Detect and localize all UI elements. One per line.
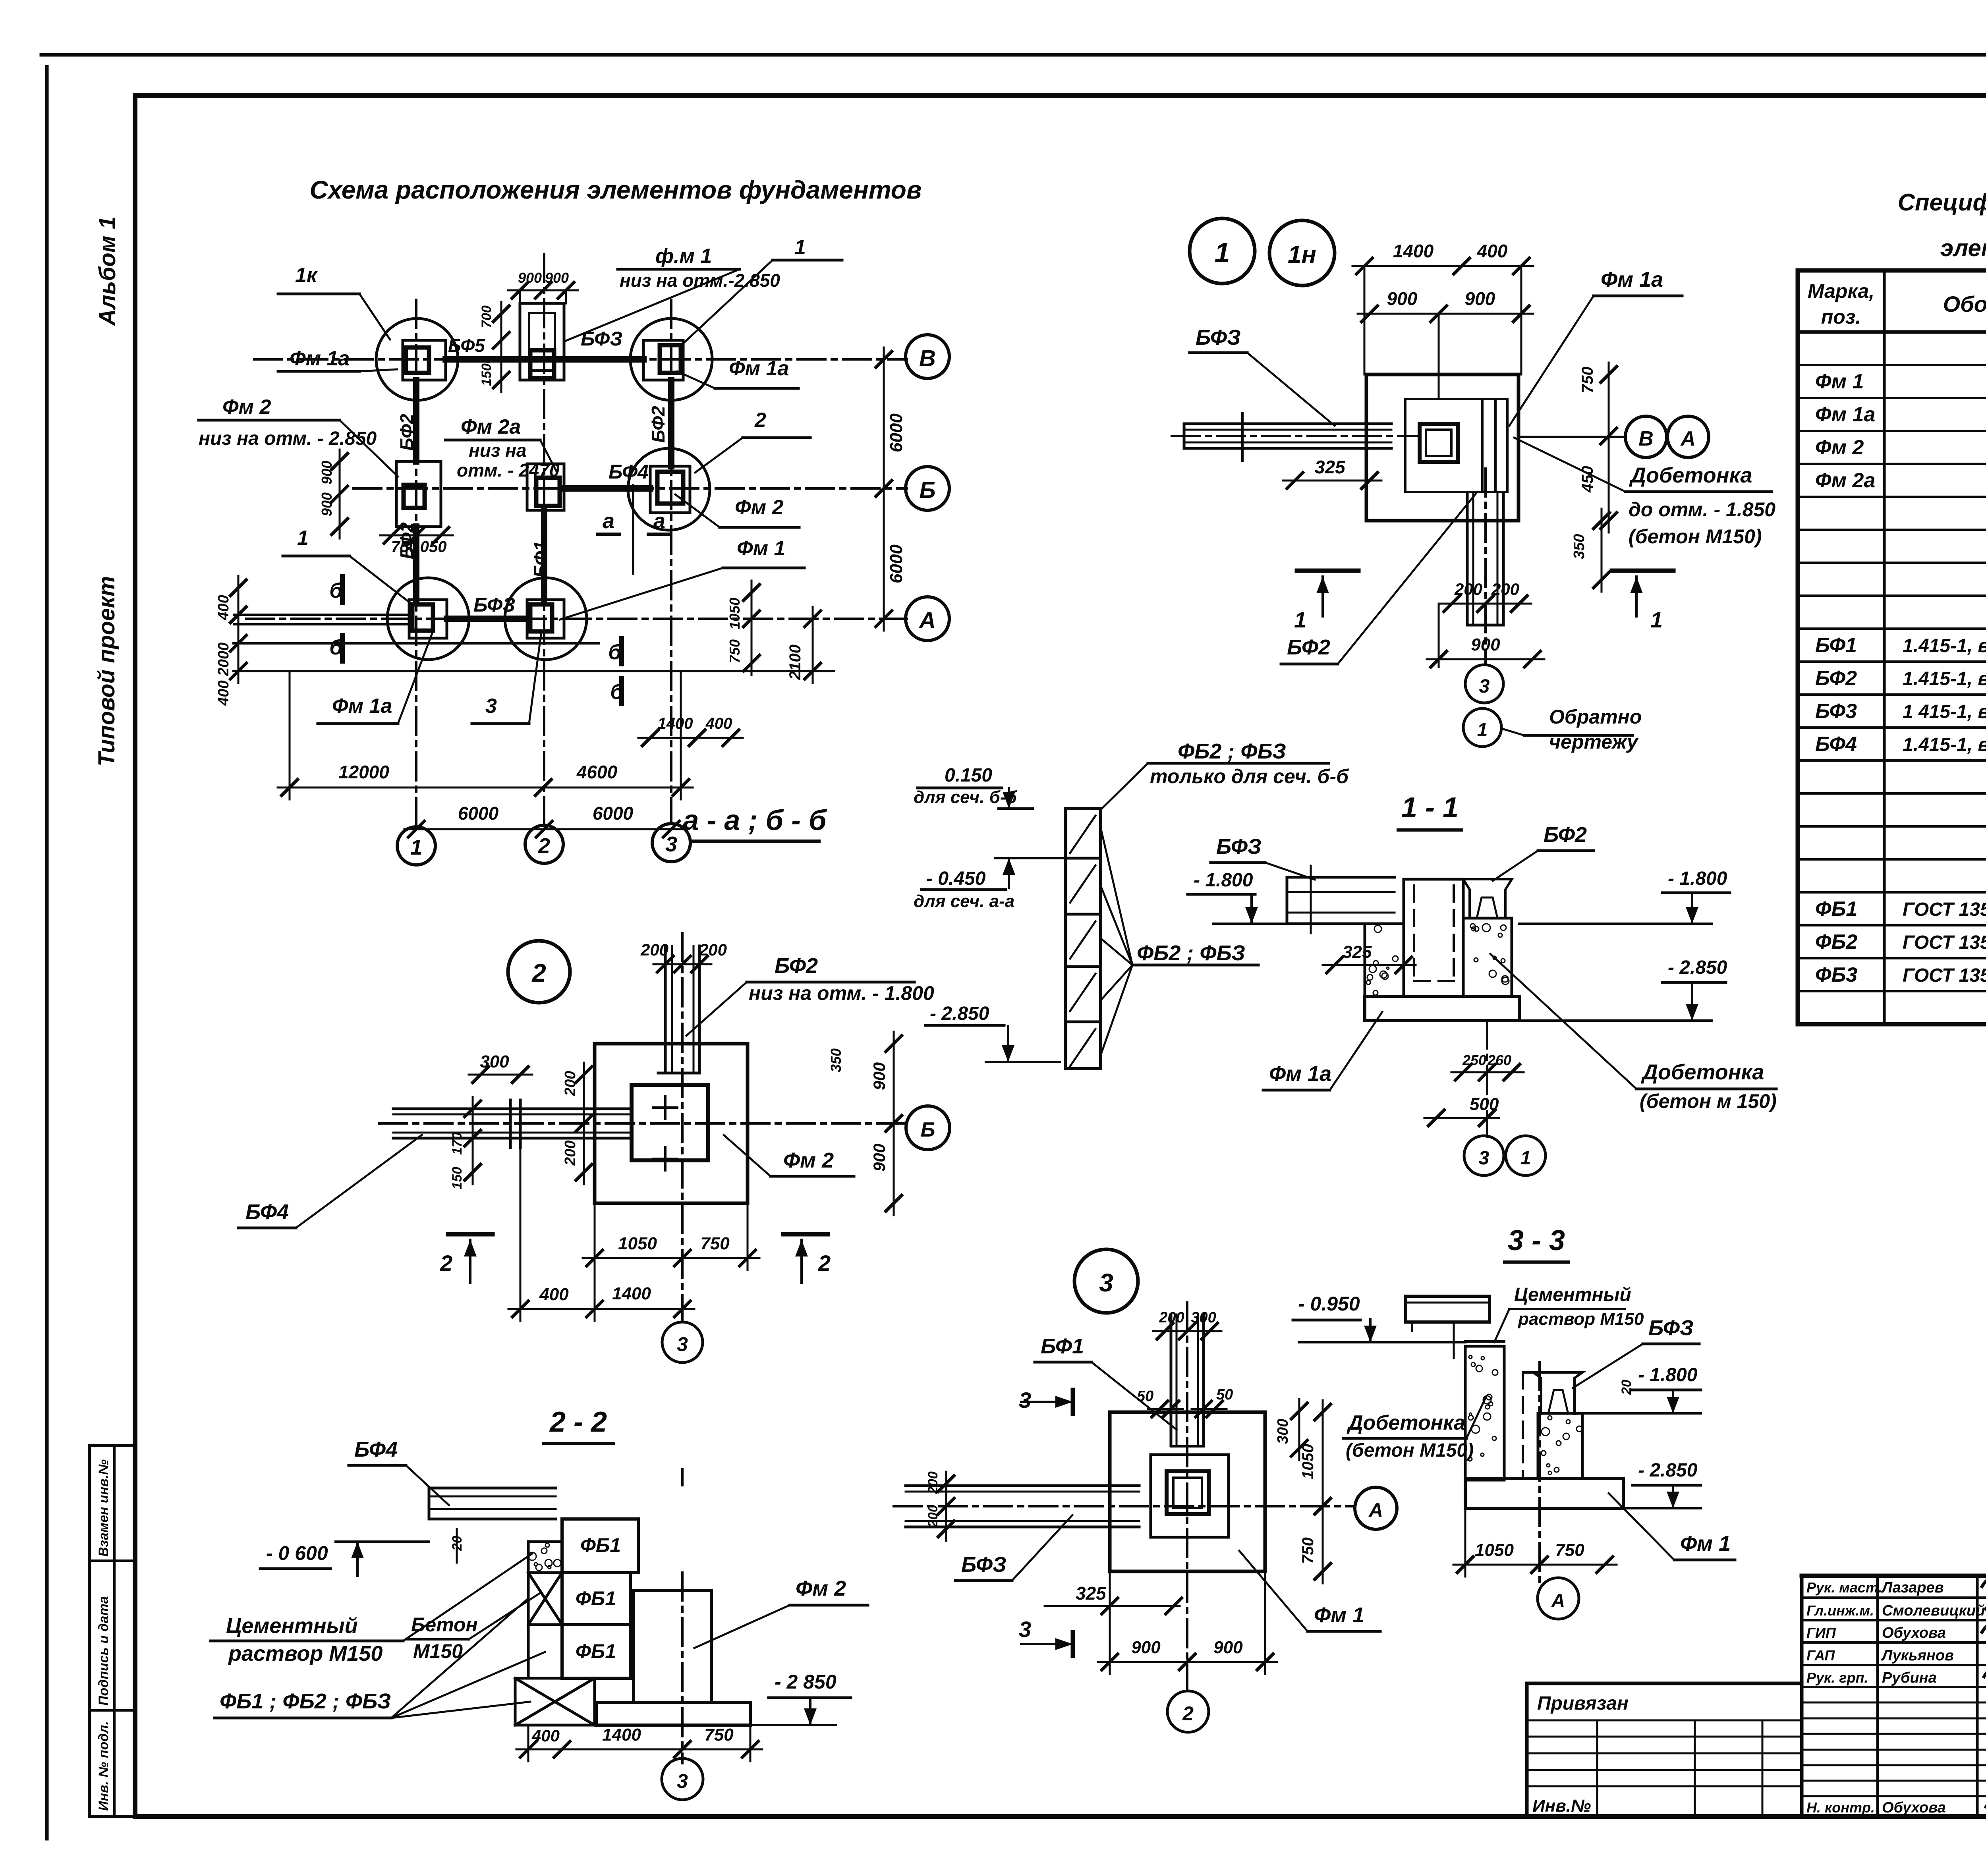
svg-text:Рубина: Рубина bbox=[1882, 1669, 1937, 1686]
svg-text:Смолевицкий: Смолевицкий bbox=[1882, 1602, 1985, 1619]
svg-text:1400: 1400 bbox=[1393, 241, 1434, 261]
svg-text:3: 3 bbox=[1099, 1268, 1113, 1297]
svg-text:2: 2 bbox=[440, 1251, 452, 1276]
svg-text:1 415-1, вып 1: 1 415-1, вып 1 bbox=[1903, 701, 1986, 722]
svg-text:50: 50 bbox=[1216, 1386, 1233, 1403]
svg-text:200: 200 bbox=[1454, 580, 1482, 598]
svg-text:900: 900 bbox=[870, 1062, 889, 1090]
svg-text:900: 900 bbox=[1387, 288, 1418, 309]
svg-text:4600: 4600 bbox=[576, 762, 618, 782]
svg-text:а: а bbox=[603, 509, 614, 533]
svg-text:М150: М150 bbox=[413, 1640, 463, 1662]
svg-text:БФ1: БФ1 bbox=[530, 541, 551, 578]
svg-text:900: 900 bbox=[319, 461, 335, 484]
svg-text:Фм 1: Фм 1 bbox=[1815, 370, 1864, 393]
svg-text:3: 3 bbox=[1479, 1148, 1489, 1169]
svg-text:Фм 2а: Фм 2а bbox=[461, 415, 521, 438]
svg-text:низ на: низ на bbox=[469, 440, 527, 461]
svg-text:3: 3 bbox=[1479, 676, 1490, 697]
svg-text:1.415-1, вып.1: 1.415-1, вып.1 bbox=[1903, 668, 1986, 689]
svg-text:Бетон: Бетон bbox=[411, 1614, 478, 1636]
svg-text:750: 750 bbox=[700, 1234, 730, 1253]
svg-text:1050: 1050 bbox=[411, 538, 447, 556]
svg-text:750: 750 bbox=[1299, 1537, 1317, 1564]
svg-text:Обозначение: Обозначение bbox=[1943, 291, 1986, 317]
svg-text:Обухова: Обухова bbox=[1882, 1799, 1946, 1816]
svg-text:БФ2: БФ2 bbox=[1544, 823, 1587, 847]
svg-text:Фм 1а: Фм 1а bbox=[332, 695, 392, 718]
svg-text:2: 2 bbox=[531, 959, 546, 987]
svg-text:БФЗ: БФЗ bbox=[473, 594, 515, 616]
svg-text:- 1.800: - 1.800 bbox=[1668, 868, 1727, 889]
svg-text:2: 2 bbox=[1182, 1702, 1194, 1725]
svg-text:3: 3 bbox=[665, 832, 677, 856]
svg-text:200: 200 bbox=[1159, 1309, 1184, 1326]
svg-text:ФБ3: ФБ3 bbox=[1815, 963, 1857, 986]
svg-text:6000: 6000 bbox=[887, 413, 906, 452]
svg-text:1к: 1к bbox=[295, 264, 318, 287]
svg-text:Фм 1а: Фм 1а bbox=[1269, 1062, 1331, 1086]
svg-text:БФ3: БФ3 bbox=[1815, 700, 1857, 723]
svg-text:2000: 2000 bbox=[215, 643, 232, 677]
svg-text:20: 20 bbox=[1619, 1380, 1634, 1395]
svg-text:А: А bbox=[1368, 1499, 1383, 1521]
svg-text:900: 900 bbox=[518, 270, 542, 286]
svg-text:2: 2 bbox=[754, 409, 766, 432]
svg-text:1.415-1, вып 1: 1.415-1, вып 1 bbox=[1903, 734, 1986, 755]
svg-text:50: 50 bbox=[1137, 1388, 1153, 1405]
svg-text:раствор М150: раствор М150 bbox=[1518, 1309, 1644, 1329]
svg-text:0.150: 0.150 bbox=[945, 765, 992, 786]
svg-text:200: 200 bbox=[1491, 580, 1519, 598]
svg-text:325: 325 bbox=[1343, 942, 1372, 962]
svg-text:- 1.800: - 1.800 bbox=[1638, 1365, 1698, 1386]
svg-text:1: 1 bbox=[1477, 720, 1488, 741]
svg-text:325: 325 bbox=[1076, 1583, 1107, 1604]
svg-text:Взамен инв.№: Взамен инв.№ bbox=[96, 1459, 111, 1557]
svg-text:2: 2 bbox=[538, 834, 550, 858]
svg-text:низ на отм. - 2.850: низ на отм. - 2.850 bbox=[199, 428, 377, 449]
svg-text:БФЗ: БФЗ bbox=[1648, 1316, 1694, 1340]
svg-text:1050: 1050 bbox=[726, 598, 743, 629]
svg-text:6000: 6000 bbox=[458, 803, 499, 824]
svg-text:А: А bbox=[1680, 427, 1696, 450]
svg-text:1.415-1, вып.1: 1.415-1, вып.1 bbox=[1903, 635, 1986, 656]
svg-text:раствор М150: раствор М150 bbox=[228, 1642, 383, 1666]
svg-text:Фм 1а: Фм 1а bbox=[1815, 403, 1875, 426]
svg-text:3: 3 bbox=[1019, 1388, 1031, 1413]
svg-text:ГОСТ 13579-78: ГОСТ 13579-78 bbox=[1903, 899, 1986, 920]
svg-text:Спецификация к схеме расп: Спецификация к схеме расположения bbox=[1898, 189, 1986, 216]
svg-text:а: а bbox=[653, 509, 665, 533]
svg-text:а - а ; б - б: а - а ; б - б bbox=[683, 805, 827, 836]
svg-text:отм. - 2470: отм. - 2470 bbox=[457, 460, 560, 481]
svg-text:Подпись и дата: Подпись и дата bbox=[96, 1596, 111, 1706]
svg-text:- 0.950: - 0.950 bbox=[1298, 1293, 1360, 1315]
svg-text:400: 400 bbox=[705, 715, 732, 732]
svg-text:БФ2: БФ2 bbox=[1815, 667, 1857, 690]
svg-text:200: 200 bbox=[562, 1141, 579, 1166]
svg-text:2 - 2: 2 - 2 bbox=[549, 1406, 607, 1438]
svg-text:Марка,: Марка, bbox=[1808, 280, 1874, 302]
svg-text:БФ2: БФ2 bbox=[648, 406, 668, 443]
svg-text:Типовой проект: Типовой проект bbox=[94, 576, 120, 766]
svg-text:до отм. - 1.850: до отм. - 1.850 bbox=[1629, 498, 1775, 521]
svg-text:- 2.850: - 2.850 bbox=[930, 1003, 989, 1024]
svg-text:низ на отм. - 1.800: низ на отм. - 1.800 bbox=[749, 982, 934, 1004]
svg-text:750: 750 bbox=[1579, 367, 1596, 393]
svg-text:750: 750 bbox=[704, 1725, 734, 1745]
svg-text:- 0 600: - 0 600 bbox=[266, 1542, 328, 1564]
svg-text:Рук. грп.: Рук. грп. bbox=[1806, 1669, 1868, 1686]
svg-text:200: 200 bbox=[562, 1071, 579, 1096]
svg-text:поз.: поз. bbox=[1821, 306, 1861, 328]
svg-text:750: 750 bbox=[1555, 1540, 1584, 1560]
svg-text:ФБ2: ФБ2 bbox=[1815, 930, 1857, 953]
svg-text:Обратно: Обратно bbox=[1549, 706, 1642, 728]
svg-text:1400: 1400 bbox=[658, 715, 693, 732]
svg-text:250: 250 bbox=[1462, 1052, 1486, 1068]
svg-text:325: 325 bbox=[1315, 457, 1346, 477]
svg-text:400: 400 bbox=[1477, 241, 1508, 261]
svg-text:Фм 2: Фм 2 bbox=[735, 496, 784, 519]
svg-text:2100: 2100 bbox=[786, 645, 804, 680]
svg-text:3: 3 bbox=[1019, 1617, 1031, 1642]
svg-text:350: 350 bbox=[1571, 534, 1588, 559]
svg-text:БФЗ: БФЗ bbox=[961, 1553, 1007, 1577]
svg-text:ГАП: ГАП bbox=[1806, 1647, 1835, 1664]
svg-text:Фм 1а: Фм 1а bbox=[1601, 268, 1663, 291]
svg-text:Фм 2: Фм 2 bbox=[222, 396, 271, 419]
svg-text:Фм 2: Фм 2 bbox=[783, 1148, 834, 1172]
svg-text:ФБ2 ; ФБЗ: ФБ2 ; ФБЗ bbox=[1137, 941, 1245, 965]
svg-text:6000: 6000 bbox=[593, 803, 634, 824]
svg-text:(бетон М150): (бетон М150) bbox=[1346, 1440, 1474, 1461]
svg-text:260: 260 bbox=[1487, 1052, 1511, 1068]
svg-text:низ на отм.-2.850: низ на отм.-2.850 bbox=[620, 270, 780, 291]
svg-text:Фм 1а: Фм 1а bbox=[290, 347, 350, 370]
svg-text:ФБ1: ФБ1 bbox=[580, 1534, 621, 1556]
svg-text:БФ4: БФ4 bbox=[609, 461, 649, 483]
svg-text:Фм 1: Фм 1 bbox=[1680, 1532, 1731, 1556]
svg-text:Фм 2а: Фм 2а bbox=[1815, 469, 1875, 492]
svg-text:1: 1 bbox=[1294, 607, 1306, 632]
svg-text:1400: 1400 bbox=[602, 1725, 641, 1745]
svg-text:БФ2: БФ2 bbox=[396, 414, 417, 451]
svg-text:В: В bbox=[1638, 427, 1654, 450]
svg-text:Альбом 1: Альбом 1 bbox=[95, 216, 120, 326]
svg-text:БФ4: БФ4 bbox=[1815, 733, 1857, 756]
svg-text:- 2 850: - 2 850 bbox=[775, 1671, 837, 1693]
svg-text:БФЗ: БФЗ bbox=[1216, 835, 1262, 859]
svg-text:ФБ1: ФБ1 bbox=[1815, 897, 1857, 921]
svg-text:1: 1 bbox=[297, 527, 309, 550]
svg-text:БФ2: БФ2 bbox=[1287, 635, 1330, 659]
svg-text:Гл.инж.м.: Гл.инж.м. bbox=[1806, 1602, 1874, 1619]
svg-text:1500: 1500 bbox=[479, 356, 494, 386]
svg-text:ГОСТ 13579-78: ГОСТ 13579-78 bbox=[1903, 965, 1986, 986]
svg-text:БФ4: БФ4 bbox=[354, 1438, 398, 1461]
svg-text:- 2.850: - 2.850 bbox=[1638, 1460, 1698, 1481]
svg-text:150: 150 bbox=[450, 1167, 465, 1189]
svg-text:1: 1 bbox=[794, 236, 806, 259]
svg-text:Лукьянов: Лукьянов bbox=[1881, 1647, 1954, 1664]
svg-text:Инв.№: Инв.№ bbox=[1532, 1796, 1591, 1816]
svg-text:Фм 1а: Фм 1а bbox=[729, 357, 789, 380]
svg-text:1050: 1050 bbox=[1475, 1540, 1514, 1560]
svg-text:Привязан: Привязан bbox=[1537, 1693, 1629, 1714]
svg-text:А: А bbox=[918, 608, 936, 633]
svg-text:900: 900 bbox=[1131, 1638, 1161, 1657]
svg-text:Н. контр.: Н. контр. bbox=[1806, 1799, 1875, 1816]
svg-text:для сеч. а-а: для сеч. а-а bbox=[914, 892, 1014, 911]
svg-text:1050: 1050 bbox=[1299, 1444, 1317, 1479]
svg-text:300: 300 bbox=[480, 1052, 509, 1071]
svg-text:3: 3 bbox=[485, 695, 497, 718]
svg-text:3: 3 bbox=[677, 1333, 688, 1355]
svg-text:Лазарев: Лазарев bbox=[1881, 1579, 1944, 1596]
svg-text:Фм 1: Фм 1 bbox=[1314, 1603, 1364, 1627]
svg-text:Рук. маст.: Рук. маст. bbox=[1806, 1579, 1882, 1596]
svg-text:БФЗ: БФЗ bbox=[581, 328, 622, 350]
svg-text:Фм 2: Фм 2 bbox=[796, 1577, 846, 1600]
svg-text:БФ5: БФ5 bbox=[448, 335, 485, 356]
svg-text:Добетонка: Добетонка bbox=[1347, 1411, 1465, 1434]
svg-text:- 0.450: - 0.450 bbox=[926, 868, 986, 889]
svg-text:6000: 6000 bbox=[887, 544, 906, 583]
svg-text:элементов фундаментов: элементов фундаментов bbox=[1940, 235, 1986, 261]
svg-text:А: А bbox=[1551, 1590, 1565, 1612]
svg-text:3: 3 bbox=[677, 1770, 688, 1792]
svg-text:1: 1 bbox=[1215, 237, 1230, 268]
svg-text:12000: 12000 bbox=[338, 762, 389, 782]
svg-text:Б: Б bbox=[921, 1118, 935, 1141]
svg-text:900: 900 bbox=[319, 492, 335, 516]
svg-text:1: 1 bbox=[1520, 1148, 1531, 1169]
svg-text:ФБ2 ; ФБЗ: ФБ2 ; ФБЗ bbox=[1178, 739, 1286, 763]
svg-text:700: 700 bbox=[479, 305, 494, 328]
svg-text:400: 400 bbox=[215, 680, 232, 706]
svg-text:Цементный: Цементный bbox=[226, 1614, 358, 1638]
svg-text:1400: 1400 bbox=[612, 1284, 651, 1303]
svg-text:Обухова: Обухова bbox=[1882, 1625, 1946, 1641]
svg-text:300: 300 bbox=[1191, 1309, 1216, 1326]
svg-text:900: 900 bbox=[545, 270, 569, 286]
svg-text:БФЗ: БФЗ bbox=[1196, 326, 1241, 349]
svg-text:1н: 1н bbox=[1288, 241, 1316, 268]
svg-text:Добетонка: Добетонка bbox=[1629, 463, 1752, 487]
svg-text:1: 1 bbox=[1650, 607, 1663, 632]
svg-text:900: 900 bbox=[1465, 288, 1495, 309]
svg-text:БФ4: БФ4 bbox=[245, 1200, 289, 1224]
svg-text:БФ2: БФ2 bbox=[775, 954, 818, 978]
svg-text:ФБ1: ФБ1 bbox=[576, 1587, 616, 1610]
svg-text:ФБ1 ; ФБ2 ; ФБЗ: ФБ1 ; ФБ2 ; ФБЗ bbox=[220, 1689, 391, 1713]
svg-text:2: 2 bbox=[818, 1251, 831, 1276]
svg-text:Фм 1: Фм 1 bbox=[737, 537, 785, 560]
svg-text:Инв. № подл.: Инв. № подл. bbox=[96, 1721, 111, 1811]
svg-text:200: 200 bbox=[699, 940, 727, 959]
svg-text:900: 900 bbox=[870, 1144, 889, 1172]
svg-text:В: В bbox=[919, 345, 936, 371]
svg-text:ГОСТ 13579-78: ГОСТ 13579-78 bbox=[1903, 932, 1986, 953]
svg-text:400: 400 bbox=[531, 1726, 560, 1745]
svg-text:Цементный: Цементный bbox=[1514, 1284, 1631, 1305]
svg-text:(бетон М150): (бетон М150) bbox=[1629, 525, 1762, 548]
svg-text:3 - 3: 3 - 3 bbox=[1508, 1225, 1565, 1256]
svg-text:450: 450 bbox=[1579, 466, 1596, 493]
svg-text:для сеч. б-б: для сеч. б-б bbox=[914, 787, 1018, 807]
svg-text:ф.м 1: ф.м 1 bbox=[655, 245, 712, 268]
svg-text:(бетон м 150): (бетон м 150) bbox=[1640, 1090, 1777, 1112]
svg-text:БФ1: БФ1 bbox=[1815, 634, 1857, 657]
svg-text:Схема расположения элементов: Схема расположения элементов фундаментов bbox=[309, 176, 922, 204]
svg-text:только для сеч. б-б: только для сеч. б-б bbox=[1150, 765, 1349, 787]
svg-text:900: 900 bbox=[1471, 635, 1500, 654]
svg-text:350: 350 bbox=[828, 1048, 844, 1072]
svg-text:ФБ1: ФБ1 bbox=[576, 1640, 616, 1662]
svg-text:1: 1 bbox=[410, 836, 422, 859]
svg-text:400: 400 bbox=[539, 1285, 569, 1304]
svg-text:Фм 2: Фм 2 bbox=[1815, 436, 1864, 459]
svg-text:1050: 1050 bbox=[618, 1234, 657, 1253]
svg-text:400: 400 bbox=[215, 595, 232, 620]
svg-text:- 1.800: - 1.800 bbox=[1194, 870, 1253, 891]
svg-text:170: 170 bbox=[450, 1132, 465, 1155]
svg-text:ГИП: ГИП bbox=[1806, 1625, 1836, 1641]
svg-text:чертежу: чертежу bbox=[1549, 731, 1639, 753]
svg-text:1 - 1: 1 - 1 bbox=[1401, 792, 1459, 824]
svg-text:900: 900 bbox=[1213, 1638, 1243, 1657]
svg-text:300: 300 bbox=[1275, 1419, 1291, 1444]
svg-text:Добетонка: Добетонка bbox=[1641, 1060, 1764, 1084]
svg-text:750: 750 bbox=[726, 639, 743, 663]
svg-text:- 2.850: - 2.850 bbox=[1668, 957, 1727, 978]
svg-text:200: 200 bbox=[640, 940, 668, 959]
svg-text:БФ1: БФ1 bbox=[1041, 1334, 1084, 1358]
svg-text:Б: Б bbox=[919, 477, 935, 503]
